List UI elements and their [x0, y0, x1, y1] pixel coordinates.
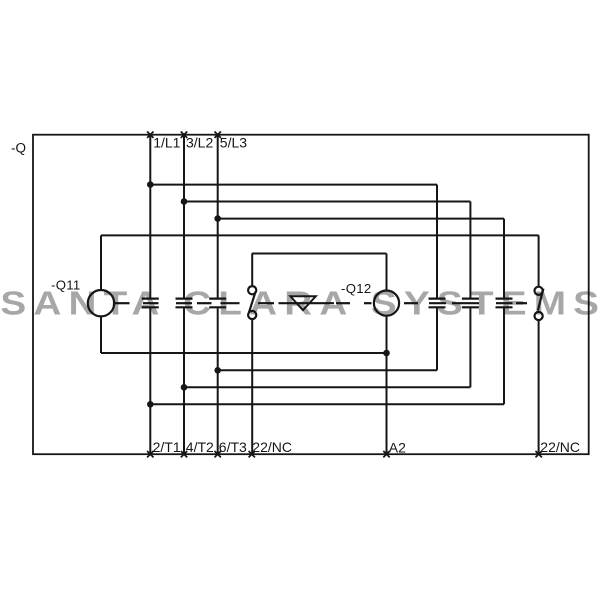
junction node L1 crossover: [147, 181, 154, 188]
junction node T3 crossback: [214, 367, 221, 374]
wire T1 output vertical (Q11 contact 1 to 2/T1): [149, 308, 151, 454]
wire L1 crossover horizontal to Q12 contact 1: [150, 184, 437, 186]
terminal mark 22/NC left: [249, 451, 255, 457]
wire L2 input vertical (3/L2 to Q11 contact 2): [183, 135, 185, 298]
svg-text:6/T3: 6/T3: [219, 439, 247, 455]
wire Q12 contact 3 top vertical: [503, 219, 505, 298]
wire Q12 NC bottom vertical to terminal 22/NC: [538, 320, 540, 454]
wire Q11 coil A2 horizontal to A2 node: [101, 352, 387, 354]
junction node T2 crossback: [181, 384, 188, 391]
terminal mark A2: [383, 451, 389, 457]
contactor Q11 main contact 1 (pole 1/L1-2/T1): [142, 299, 159, 308]
wire Q11 coil A1 vertical: [100, 235, 102, 290]
auxiliary NC contact 22/NC of Q12 (electrical interlock): [535, 287, 544, 320]
svg-text:A2: A2: [389, 439, 406, 455]
coil -Q11 (contactor coil): [88, 290, 114, 316]
svg-text:4/T2: 4/T2: [186, 439, 214, 455]
svg-text:-Q: -Q: [11, 140, 26, 155]
wire L2 crossover horizontal to Q12 contact 2: [184, 201, 470, 203]
wire L1 input vertical (1/L1 to Q11 contact 1): [149, 135, 151, 298]
wire T3 output vertical (Q11 contact 3 to 6/T3): [217, 308, 219, 454]
wire Q12 contact 1 crossback horizontal to T3: [218, 369, 437, 371]
wire Q11 NC top vertical: [251, 254, 253, 287]
terminal mark 2/T1: [147, 451, 153, 457]
wire Q12 contact 1 bottom vertical: [436, 308, 438, 370]
svg-text:1/L1: 1/L1: [153, 134, 180, 150]
junction node L2 crossover: [181, 198, 188, 205]
contactor Q11 main contact 2 (pole 3/L2-4/T2): [176, 299, 193, 308]
svg-text:2/T1: 2/T1: [153, 439, 181, 455]
svg-text:22/NC: 22/NC: [540, 439, 580, 455]
terminal mark 5/L3: [215, 132, 221, 138]
enclosure -Q boundary: [33, 135, 589, 455]
wire Q12 contact 2 top vertical: [469, 202, 471, 298]
svg-text:SANTA CLARA SYSTEMS: SANTA CLARA SYSTEMS: [0, 284, 600, 322]
terminal mark 1/L1: [147, 132, 153, 138]
svg-text:22/NC: 22/NC: [252, 439, 292, 455]
wire Q12 contact 3 bottom vertical: [503, 308, 505, 404]
contactor Q12 main contact 2: [462, 299, 479, 308]
mechanical linkage solid segment through interlock triangle: [279, 302, 335, 304]
wire Q12 coil A1 vertical: [386, 254, 388, 291]
terminal mark 6/T3: [215, 451, 221, 457]
wire Q11 NC bottom vertical to terminal 22/NC: [251, 319, 253, 454]
junction node L3 crossover: [214, 215, 221, 222]
contactor Q12 main contact 3: [496, 299, 513, 308]
wire Q12 coil A2 vertical to terminal A2: [386, 316, 388, 454]
auxiliary NC contact 22/NC of Q11 (electrical interlock): [248, 286, 256, 319]
wire Q11 coil A1 horizontal to Q12 NC interlock: [101, 234, 539, 236]
mechanical linkage dashed line (Q11 coil to Q12 NC): [115, 302, 527, 304]
coil -Q12 (contactor coil): [374, 291, 399, 316]
contactor Q12 main contact 1: [429, 299, 446, 308]
watermark SANTA CLARA SYSTEMS: [0, 284, 600, 322]
svg-text:5/L3: 5/L3: [220, 134, 247, 150]
terminal mark 4/T2: [181, 451, 187, 457]
wire Q12 contact 2 crossback horizontal to T2: [184, 386, 470, 388]
wire Q12 contact 2 bottom vertical: [469, 308, 471, 387]
junction node T1 crossback: [147, 401, 154, 408]
mechanical interlock triangle between Q11 and Q12: [290, 296, 315, 310]
contactor Q11 main contact 3 (pole 5/L3-6/T3): [209, 299, 226, 308]
junction node A2 common: [383, 350, 390, 357]
terminal mark 3/L2: [181, 132, 187, 138]
svg-text:3/L2: 3/L2: [186, 134, 213, 150]
wire Q11 coil A2 vertical: [100, 317, 102, 354]
wire Q12 contact 3 crossback horizontal to T1: [150, 403, 504, 405]
terminal mark 22/NC right: [536, 451, 542, 457]
wire Q11 NC to Q12 coil A1 horizontal: [252, 253, 387, 255]
wire Q12 NC top vertical: [538, 235, 540, 286]
wire T2 output vertical (Q11 contact 2 to 4/T2): [183, 308, 185, 454]
wire L3 input vertical (5/L3 to Q11 contact 3): [217, 135, 219, 298]
wire L3 crossover horizontal to Q12 contact 3: [218, 218, 504, 220]
wire Q12 contact 1 top vertical: [436, 185, 438, 298]
